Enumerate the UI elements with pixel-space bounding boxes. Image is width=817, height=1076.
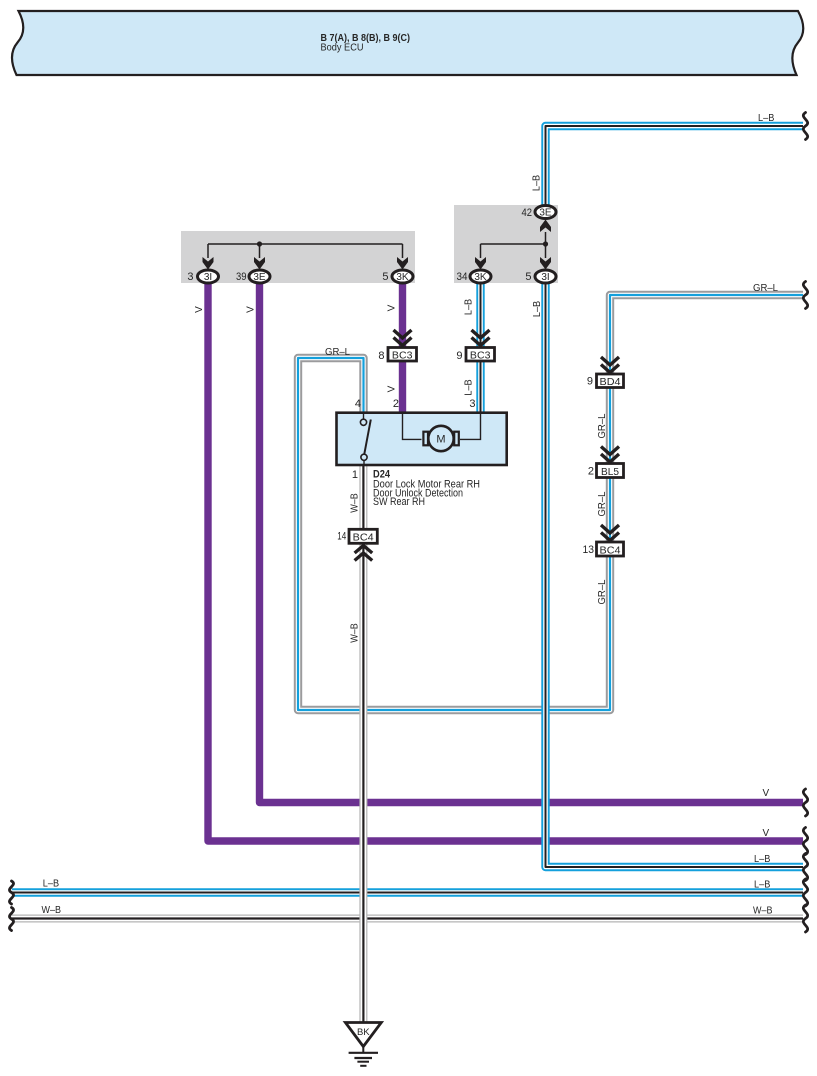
svg-text:W–B: W–B — [349, 623, 360, 643]
svg-text:W–B: W–B — [349, 493, 360, 513]
svg-text:1: 1 — [352, 469, 358, 481]
svg-text:GR–L: GR–L — [753, 283, 778, 294]
svg-text:3K: 3K — [474, 272, 487, 283]
svg-text:39: 39 — [236, 271, 247, 283]
svg-text:L–B: L–B — [464, 299, 475, 316]
svg-text:5: 5 — [382, 271, 388, 283]
svg-text:3K: 3K — [396, 272, 409, 283]
svg-text:W–B: W–B — [42, 905, 62, 916]
svg-text:13: 13 — [583, 544, 595, 556]
svg-text:V: V — [246, 306, 257, 313]
svg-text:3I: 3I — [204, 272, 212, 283]
svg-text:9: 9 — [587, 376, 593, 388]
svg-text:L–B: L–B — [532, 175, 543, 192]
svg-text:GR–L: GR–L — [597, 579, 608, 604]
svg-text:BC3: BC3 — [392, 351, 413, 362]
svg-text:V: V — [763, 828, 770, 839]
svg-text:3E: 3E — [253, 272, 266, 283]
svg-text:SW Rear RH: SW Rear RH — [373, 496, 425, 508]
svg-text:V: V — [194, 306, 205, 313]
svg-text:V: V — [763, 788, 770, 799]
svg-text:2: 2 — [588, 466, 594, 478]
svg-text:V: V — [387, 304, 398, 311]
svg-text:42: 42 — [522, 207, 533, 219]
svg-text:3: 3 — [187, 271, 193, 283]
svg-text:GR–L: GR–L — [597, 491, 608, 516]
svg-text:L–B: L–B — [43, 879, 60, 890]
svg-text:3: 3 — [469, 398, 475, 410]
svg-text:2: 2 — [393, 398, 399, 410]
svg-text:GR–L: GR–L — [597, 413, 608, 438]
svg-text:L–B: L–B — [758, 113, 775, 124]
svg-text:5: 5 — [525, 271, 531, 283]
svg-text:BL5: BL5 — [601, 467, 619, 478]
svg-text:BK: BK — [357, 1027, 370, 1038]
svg-text:9: 9 — [456, 350, 462, 362]
svg-text:W–B: W–B — [753, 905, 773, 916]
svg-text:L–B: L–B — [754, 854, 771, 865]
svg-text:L–B: L–B — [464, 379, 475, 396]
svg-text:3E: 3E — [539, 208, 552, 219]
svg-text:L–B: L–B — [754, 879, 771, 890]
svg-text:L–B: L–B — [532, 301, 543, 318]
svg-text:V: V — [387, 385, 398, 392]
svg-text:8: 8 — [378, 350, 384, 362]
svg-text:14: 14 — [337, 530, 346, 542]
svg-text:BD4: BD4 — [600, 377, 621, 388]
svg-text:BC4: BC4 — [600, 545, 621, 556]
svg-text:3I: 3I — [541, 272, 549, 283]
svg-text:4: 4 — [355, 398, 361, 410]
svg-text:Body ECU: Body ECU — [321, 43, 364, 54]
svg-text:34: 34 — [457, 271, 468, 283]
svg-text:M: M — [436, 434, 445, 446]
svg-text:BC4: BC4 — [353, 532, 374, 543]
svg-text:GR–L: GR–L — [325, 347, 350, 358]
svg-text:BC3: BC3 — [470, 351, 491, 362]
